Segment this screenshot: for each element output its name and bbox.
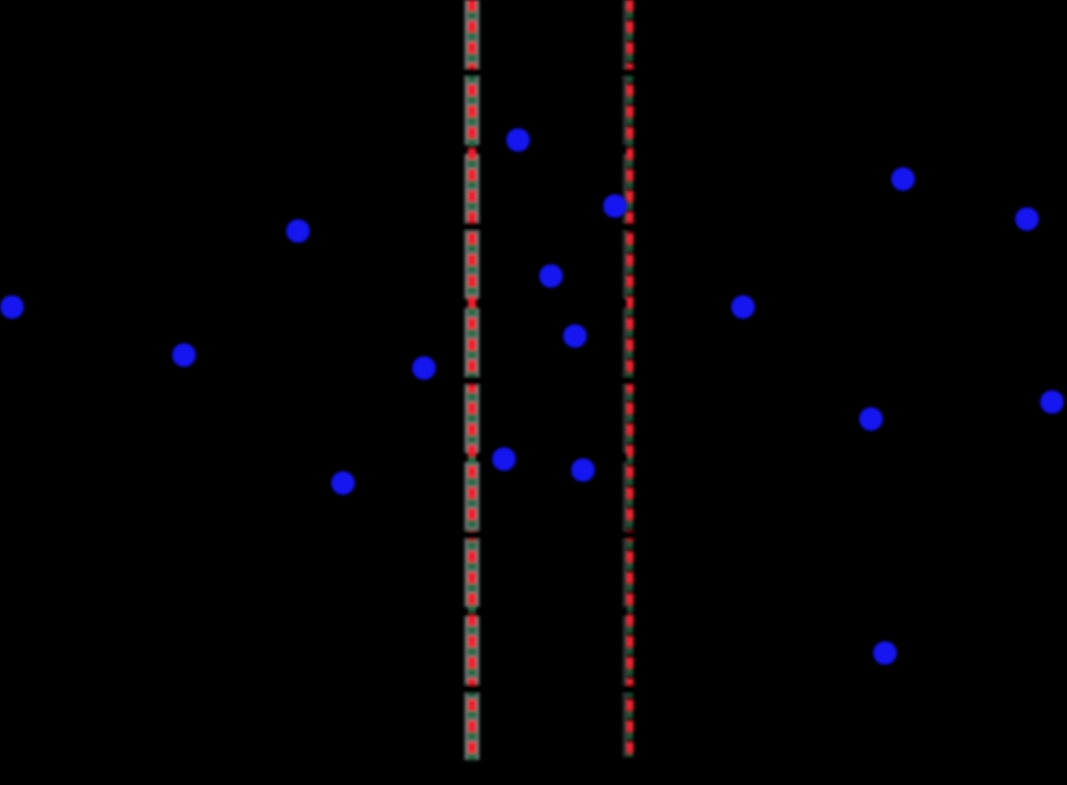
point 1	[506, 128, 530, 152]
point 6	[0, 295, 24, 319]
point 15	[331, 471, 355, 495]
point 16	[492, 447, 516, 471]
point 13	[859, 407, 883, 431]
scatter points	[0, 128, 1064, 665]
vline 1 red dash segments	[468, 0, 476, 760]
point 5	[286, 219, 310, 243]
point 17	[873, 641, 897, 665]
vline 1 black master gaps	[463, 0, 481, 760]
point 12	[1040, 390, 1064, 414]
point 10	[172, 343, 196, 367]
vline 2 red dash segments	[627, 0, 634, 757]
vline 1 gray dashed band	[465, 0, 480, 760]
point 7	[539, 264, 563, 288]
vline 2 black master gaps	[620, 0, 634, 757]
point 4	[1015, 207, 1039, 231]
point 9	[563, 324, 587, 348]
point 8	[731, 295, 755, 319]
vline 2 green dash segments	[627, 0, 633, 757]
vline 1 green dash segments	[468, 0, 476, 760]
vline 2 faint gray line	[623, 0, 627, 757]
vline group 1 (x=472)	[465, 0, 480, 760]
point 11	[412, 356, 436, 380]
point 2	[603, 194, 627, 218]
point 3	[891, 167, 915, 191]
vline group 2 (x=630)	[625, 0, 630, 757]
point 14	[571, 458, 595, 482]
